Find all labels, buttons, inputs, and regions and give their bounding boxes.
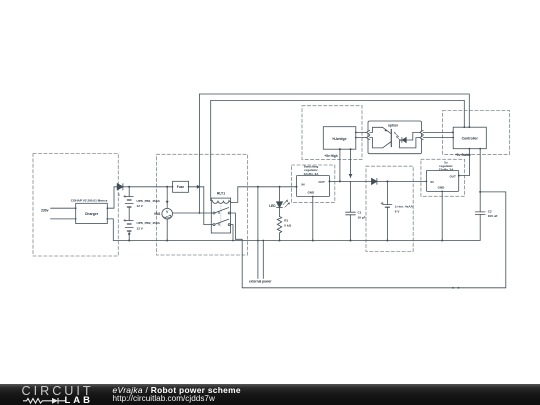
relay switch contact 1 bbox=[213, 208, 230, 214]
svg-text:GND: GND bbox=[438, 186, 446, 190]
battery Li-ion bbox=[381, 181, 392, 240]
wire optron to controller pin b bbox=[423, 137, 453, 139]
dashed module box: controller module bbox=[443, 111, 510, 155]
capacitor C1 bbox=[346, 181, 356, 240]
dashed module box: switching regulator module bbox=[292, 165, 335, 202]
wire vertical fuse node down to relay contact 2 bbox=[204, 187, 213, 225]
svg-text:optron: optron bbox=[388, 124, 398, 128]
wire rail A2 to regulator IN bbox=[238, 186, 297, 188]
optron right chevron b bbox=[420, 136, 423, 140]
svg-text:OUT: OUT bbox=[318, 180, 325, 184]
dashed module box: 5v regulator module bbox=[421, 159, 465, 196]
controller U-CTL box bbox=[453, 127, 486, 149]
5v regulator U-5V box bbox=[426, 170, 458, 191]
wire charger minus output to ground rail bbox=[107, 219, 113, 241]
svg-text:12v/5v, 3A: 12v/5v, 3A bbox=[304, 172, 320, 176]
dashed module box: H-bridge module bbox=[302, 106, 362, 160]
wire W1 top outer rail bbox=[199, 94, 469, 213]
svg-text:OUT: OUT bbox=[449, 175, 456, 179]
wire relay contact2 output to ground bbox=[230, 225, 233, 241]
svg-text:Fuse: Fuse bbox=[177, 185, 185, 189]
svg-text:12 V: 12 V bbox=[137, 226, 144, 230]
svg-text:12v/4v, 3A: 12v/4v, 3A bbox=[439, 168, 455, 172]
wire voltmeter right to relay contact 1 bbox=[173, 212, 214, 214]
wire controller power pin down through C2 bbox=[479, 149, 481, 212]
svg-text:Li-ion_4xAA: Li-ion_4xAA bbox=[395, 204, 414, 208]
wire H-bridge pin1 down bbox=[339, 149, 341, 181]
diode D1 bbox=[117, 184, 129, 190]
svg-text:external power: external power bbox=[249, 279, 272, 283]
wire external power feed from rail A bbox=[257, 187, 259, 279]
svg-text:IN: IN bbox=[302, 182, 305, 186]
wire external power stub 2 bbox=[262, 241, 264, 279]
wire main rail A battery/fuse bbox=[129, 186, 172, 188]
svg-text:+5v High: +5v High bbox=[324, 154, 337, 158]
wire ground rail bbox=[113, 240, 479, 242]
footer bar bbox=[0, 384, 540, 405]
H-bridge U-HB box bbox=[323, 127, 356, 150]
svg-text:1: 1 bbox=[118, 192, 120, 196]
wire W2 top inner rail bbox=[211, 100, 465, 200]
wire 230v input top bbox=[51, 207, 76, 209]
footer title text bbox=[113, 385, 241, 395]
optron LED bbox=[400, 132, 420, 148]
wire H-bridge to optron pin a bbox=[356, 131, 366, 133]
svg-text:C2: C2 bbox=[488, 209, 492, 213]
svg-text:COHAP V3 200.01 Минск: COHAP V3 200.01 Минск bbox=[71, 199, 108, 203]
svg-text:10 µF: 10 µF bbox=[358, 215, 366, 219]
svg-text:5 kΩ: 5 kΩ bbox=[284, 223, 291, 227]
LED LED1 bbox=[277, 187, 290, 217]
dashed module box: charger bbox=[33, 154, 118, 257]
circuitlab logo bbox=[0, 384, 105, 405]
battery UPS_PB2 bbox=[124, 219, 134, 240]
optron right chevron a bbox=[420, 130, 423, 134]
wire controller bottom pin to 5v reg OUT bbox=[459, 149, 470, 176]
relay switch contact 2 bbox=[213, 219, 230, 225]
optron left chevron a bbox=[366, 130, 369, 134]
wire optron to controller pin a bbox=[423, 131, 453, 133]
svg-text:UPS_PB1_45Ah: UPS_PB1_45Ah bbox=[137, 199, 160, 203]
footer url text bbox=[113, 394, 215, 403]
resistor R1 bbox=[277, 217, 281, 241]
svg-text:C1: C1 bbox=[358, 211, 362, 215]
switching regulator U-SW box bbox=[297, 176, 330, 197]
svg-text:VM1: VM1 bbox=[154, 212, 161, 216]
wire fuse output with arrow bbox=[189, 186, 204, 188]
svg-text:100 uF: 100 uF bbox=[488, 214, 498, 218]
wire H-bridge pin2 down with arrow bbox=[350, 149, 352, 177]
svg-text:R1: R1 bbox=[284, 218, 288, 222]
fuse F1 box bbox=[173, 181, 189, 192]
dashed module box: switch/relay module bbox=[157, 154, 248, 255]
battery UPS_PB1 bbox=[124, 187, 134, 221]
relay RLY1 body bbox=[211, 198, 230, 233]
wire 230v input bottom bbox=[51, 218, 76, 220]
svg-text:GND: GND bbox=[307, 191, 315, 195]
svg-text:+5v Stable: +5v Stable bbox=[455, 153, 471, 157]
dashed module box: li-ion battery module bbox=[366, 166, 413, 251]
wire charger plus output to diode bbox=[107, 187, 117, 208]
svg-text:RLY1: RLY1 bbox=[217, 192, 225, 196]
relay linkage dashed bbox=[220, 206, 222, 228]
wire switching regulator GND down bbox=[312, 197, 314, 241]
charger U-CHG box bbox=[76, 203, 108, 223]
wire relay contact1 output to external rail bbox=[230, 213, 242, 288]
svg-text:Controller: Controller bbox=[462, 137, 479, 141]
optron phototransistor bbox=[370, 127, 392, 148]
wire rail B regulator OUT to 5v reg IN bbox=[330, 180, 427, 182]
svg-text:6 V: 6 V bbox=[395, 209, 401, 213]
svg-text:Charger: Charger bbox=[85, 212, 99, 216]
wire relay coil to rail A2 riser bbox=[231, 187, 238, 203]
diode D2 bbox=[372, 178, 377, 184]
wire voltmeter bottom to ground rail bbox=[166, 219, 168, 241]
svg-text:LED: LED bbox=[269, 204, 276, 208]
relay coil bbox=[211, 201, 231, 204]
voltmeter VM1 bbox=[162, 208, 173, 219]
svg-text:IN: IN bbox=[431, 180, 434, 184]
optron left chevron b bbox=[366, 136, 369, 140]
wire voltmeter tap with down arrow bbox=[166, 187, 168, 209]
wire H-bridge to optron pin b bbox=[356, 137, 366, 139]
optron U-OPT box bbox=[368, 121, 422, 154]
capacitor C2 bbox=[475, 212, 485, 215]
svg-text:H-bridge: H-bridge bbox=[333, 137, 347, 141]
svg-text:230v: 230v bbox=[41, 208, 49, 212]
optron light arrows bbox=[394, 132, 401, 141]
wire 5v regulator GND down bbox=[441, 191, 443, 240]
svg-text:12 V: 12 V bbox=[137, 204, 144, 208]
svg-text:UPS_PB2_45Ah: UPS_PB2_45Ah bbox=[137, 221, 160, 225]
svg-text:LAB: LAB bbox=[65, 395, 94, 405]
wire external power loop rail bbox=[242, 192, 506, 288]
